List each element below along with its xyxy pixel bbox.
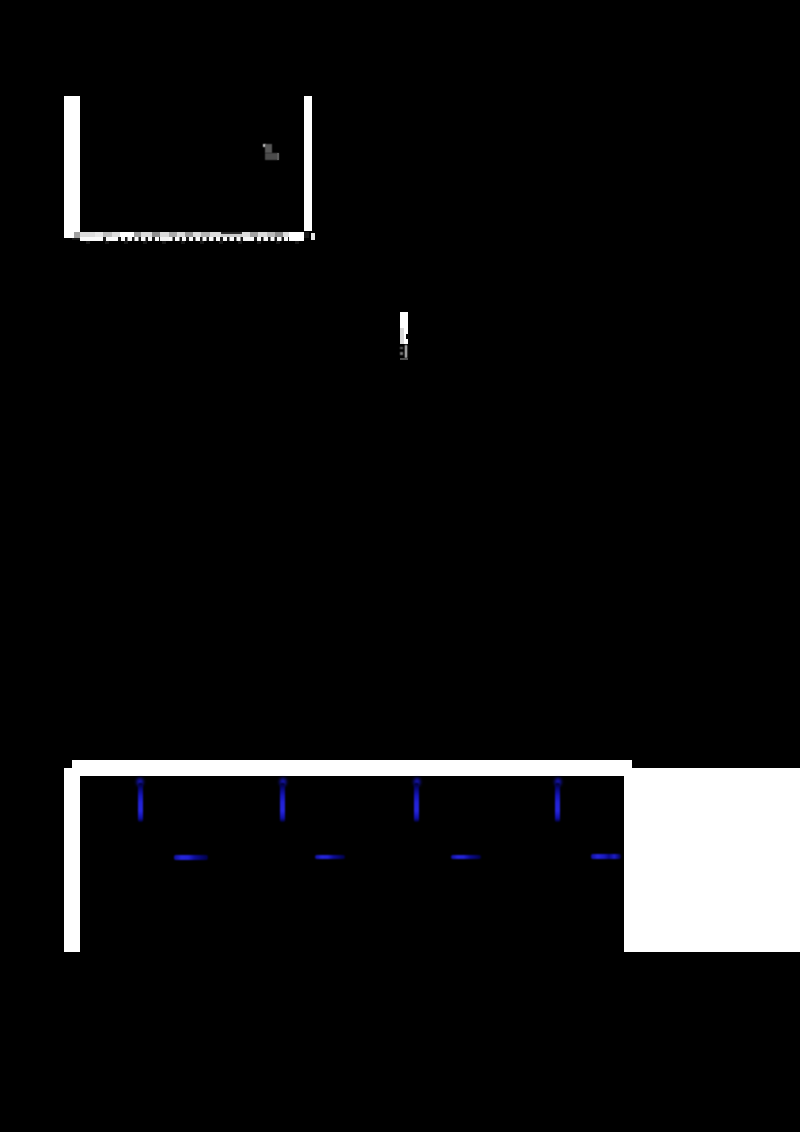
blue left arrow 4 <box>591 854 621 859</box>
figure 2 left white bar <box>64 768 81 953</box>
figure 1 left bar dark nub <box>72 238 83 241</box>
blue up arrow 1 head <box>135 777 145 788</box>
figure 2 top white bar <box>72 760 632 777</box>
middle digit 3 remnant <box>400 347 403 349</box>
figure 1 caption strip: gray block row <box>80 232 304 237</box>
blue up arrow 4 head <box>553 777 563 788</box>
figure 2 big white rectangle <box>624 768 800 952</box>
blue left arrow 1 <box>174 855 209 860</box>
blue left arrow 3 <box>451 855 481 859</box>
figure 1 caption strip: white text row with dark specks <box>80 237 304 242</box>
figure 1 caption sub-row faint marks <box>86 241 300 244</box>
figure 2 top bar left extension <box>64 768 73 777</box>
middle element: small white bar <box>400 312 408 329</box>
blue up arrow 3 head <box>412 777 422 788</box>
figure 1 interior gray staircase mark <box>263 144 266 147</box>
blue up arrow 1 shaft <box>138 783 143 822</box>
blue left arrow 2 <box>315 855 345 859</box>
blue up arrow 4 shaft <box>555 783 560 822</box>
blue up arrow 2 shaft <box>280 783 285 822</box>
middle bar lower-right white half <box>404 328 408 344</box>
middle bottom gray row <box>400 358 408 360</box>
figure 1 left bar gray foot <box>74 232 81 238</box>
figure 1 right white bar <box>304 96 312 231</box>
figure 1 caption right dark speck <box>304 232 309 238</box>
blue up arrow 3 shaft <box>414 783 419 822</box>
middle bar black notch <box>406 334 409 339</box>
figure 1 caption strip: dark dash <box>221 232 242 234</box>
middle bar lower-left gray half <box>400 328 404 344</box>
blue up arrow 2 head <box>278 777 288 788</box>
figure 1 left white bar <box>64 96 80 238</box>
middle white wisp <box>405 345 407 358</box>
